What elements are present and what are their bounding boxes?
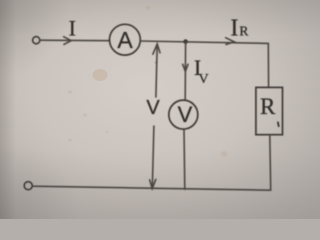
voltmeter U2 xyxy=(169,100,198,129)
arrow IV xyxy=(183,64,188,71)
ammeter U1 xyxy=(110,24,141,55)
arrow V up xyxy=(153,44,160,54)
node N1 (junction) xyxy=(183,39,188,44)
wire xyxy=(267,43,269,87)
measurement line V (upper) xyxy=(156,44,157,97)
arrow I xyxy=(64,37,72,45)
terminal J2 (bottom-left input) xyxy=(24,182,32,190)
arrow V down xyxy=(150,179,156,188)
wire xyxy=(140,41,268,43)
arrow IR xyxy=(226,38,235,45)
wire xyxy=(40,39,109,42)
wire xyxy=(184,42,186,101)
label R subscript mark xyxy=(278,122,279,127)
wire xyxy=(183,129,186,189)
wire xyxy=(32,186,270,190)
resistor R1 xyxy=(256,87,283,134)
wire xyxy=(269,135,272,191)
measurement line V (lower) xyxy=(152,126,154,188)
terminal J1 (top-left input) xyxy=(33,37,40,44)
